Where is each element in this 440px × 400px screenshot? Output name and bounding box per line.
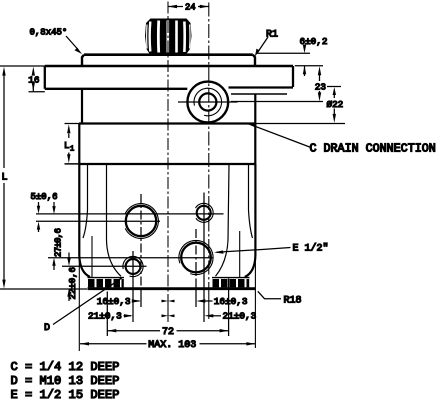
horizontal crosshair extension lines (left side) bbox=[36, 213, 224, 215]
svg-text:L: L bbox=[2, 173, 8, 184]
C drain connection leader bbox=[249, 124, 311, 148]
bottom mounting face bbox=[88, 287, 256, 290]
lower body right wall and MAX103 extension bbox=[254, 164, 256, 348]
port circle 2 (lower large) bbox=[179, 240, 213, 274]
inner face rounding curves bbox=[83, 164, 253, 278]
svg-text:C DRAIN CONNECTION: C DRAIN CONNECTION bbox=[310, 142, 436, 156]
vertical centerlines of ports bbox=[140, 194, 142, 288]
svg-text:21±0,3: 21±0,3 bbox=[223, 311, 257, 322]
svg-text:5±0,6: 5±0,6 bbox=[31, 192, 58, 202]
flange outline bbox=[45, 66, 293, 89]
svg-text:L: L bbox=[64, 140, 70, 151]
dimension L1 bbox=[65, 124, 80, 164]
dimension MAX. 103 bbox=[80, 342, 255, 345]
drain connection boss circles bbox=[187, 82, 228, 123]
svg-text:21±0,3: 21±0,3 bbox=[88, 311, 122, 322]
left foot bbox=[88, 277, 125, 279]
middle band top line (with diameter-22 bottom extension to the right) bbox=[65, 123, 346, 125]
svg-text:72: 72 bbox=[162, 327, 174, 338]
svg-text:E 1/2": E 1/2" bbox=[293, 242, 329, 254]
svg-text:16±0,3: 16±0,3 bbox=[214, 296, 248, 307]
svg-text:E = 1/2 15 DEEP: E = 1/2 15 DEEP bbox=[11, 388, 120, 400]
threaded hole D (lower left small) bbox=[123, 256, 143, 276]
lower body left wall and MAX103 extension bbox=[78, 164, 80, 351]
lower body top line bbox=[65, 163, 256, 165]
dimension 16 (flange thickness) bbox=[29, 67, 45, 92]
right foot bbox=[212, 277, 250, 279]
center arrow marks on centerline bbox=[167, 295, 169, 319]
svg-text:0,8x45°: 0,8x45° bbox=[30, 27, 68, 37]
pilot boss outline bbox=[82, 55, 255, 66]
svg-text:R18: R18 bbox=[284, 296, 302, 307]
dimension 24 (top) bbox=[168, 5, 209, 8]
drain port horizontal crosshair bbox=[178, 101, 238, 103]
L top extension line bbox=[0, 65, 45, 67]
dimension L (left overall height) bbox=[2, 67, 5, 289]
flange underside step (right) bbox=[231, 93, 287, 95]
main vertical centerline bbox=[167, 2, 169, 323]
threaded hole C (upper right small) bbox=[196, 203, 214, 222]
drain port centerline bbox=[208, 3, 210, 293]
svg-text:C = 1/4 12 DEEP: C = 1/4 12 DEEP bbox=[11, 360, 120, 374]
svg-text:27±0,6: 27±0,6 bbox=[54, 228, 64, 257]
svg-text:16±0,3: 16±0,3 bbox=[97, 296, 131, 307]
leader for chamfer bbox=[66, 36, 78, 50]
svg-text:MAX. 103: MAX. 103 bbox=[148, 340, 196, 351]
leader for R1 bbox=[258, 37, 269, 53]
splined shaft (black barrel with white spline slots) bbox=[145, 19, 192, 55]
shaft spline slots (white) bbox=[147, 21, 190, 53]
middle band sides bbox=[79, 124, 255, 165]
svg-text:1: 1 bbox=[70, 146, 74, 154]
bottom-left extension for L bbox=[0, 288, 87, 290]
svg-text:D = M10 13 DEEP: D = M10 13 DEEP bbox=[11, 374, 120, 388]
svg-text:R1: R1 bbox=[266, 30, 278, 41]
svg-text:23: 23 bbox=[315, 81, 326, 92]
svg-text:24: 24 bbox=[185, 2, 196, 12]
dimension 72 bbox=[107, 279, 228, 337]
svg-text:D: D bbox=[44, 323, 50, 334]
port circle 1 (upper left large) bbox=[125, 204, 158, 239]
svg-text:16: 16 bbox=[28, 74, 39, 85]
neck section sides bbox=[82, 89, 255, 124]
